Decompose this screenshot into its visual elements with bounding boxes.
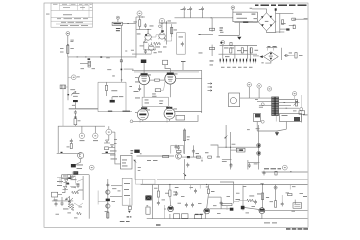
wire B3 right up [211,145,219,157]
label DS2 [93,139,98,142]
wire B3 down [184,159,186,171]
wire V3 top [143,63,145,73]
wire V5 heater stub [139,120,141,123]
specks right of R31 [173,191,176,194]
labels C4 c [303,195,307,198]
resistor strip r2 [241,48,243,53]
tap arrow 1 [208,83,213,85]
label top module [112,75,115,78]
labels under P1 [72,104,75,107]
relay box K1 [121,156,133,170]
speck bus9 [217,212,221,215]
resistor R36 [275,171,277,175]
labels caps B1 [181,8,202,11]
labels strip b [237,49,248,52]
switch box S4 [176,115,185,120]
wire F1 col [74,113,76,119]
rectifier bridge CR2 [264,52,279,62]
tick TB1 right [127,22,129,25]
triode V1A [144,31,152,40]
wire choke left [80,63,88,65]
wire V4 grid link [161,81,166,91]
wire B1 web5 [149,44,151,46]
wire v221 [220,197,222,209]
connector P3 [145,195,151,200]
speck bus7 [198,202,202,205]
arrow v135 top [134,160,136,163]
specks A4 box left [118,190,121,193]
wire R14 [106,82,108,85]
text in bias module 2 [237,17,248,20]
tick stub202 [201,160,203,163]
marks CR2 right [289,52,292,55]
wire module drop [238,22,240,35]
labels A2 [70,88,75,91]
capacitor C28 [192,149,195,154]
wire tangle13 [55,199,57,202]
wire heater feed [124,69,133,70]
wire C3 v230 [230,132,232,170]
resistor R6a [209,47,214,49]
resistor R31 [169,190,171,196]
wire A3 bottom [57,152,80,154]
wire B4 d3 [164,205,166,219]
specks C3 d [222,160,227,163]
resistor R26b [71,204,74,211]
speck B3 r1 [196,152,200,155]
labels under q7 [195,213,203,216]
speck B1 c [137,33,141,36]
wire cap stem a [183,11,185,18]
wire V2 plate [161,23,163,30]
wire B3 top bus [133,115,199,121]
wire c40 top [281,195,283,202]
wire stub290 [289,185,291,190]
wire B1 h3 [144,49,156,51]
wire r37 left [234,201,247,202]
wire C3 v247 [247,160,249,170]
wire S1 to vert [112,131,115,133]
title block outline [51,3,93,27]
title block rows [51,10,93,24]
wire R7 drop [211,18,213,32]
speck tube V4 [174,73,178,76]
resistor R16 [295,100,297,107]
neon arrow 2 [69,198,74,202]
wire C4 v295 [294,200,296,204]
speck choke a [81,67,85,70]
terminal E2 [231,6,235,10]
wire C3 h150 [231,149,241,151]
speck bus1 [154,187,158,190]
wire hv h4 [280,28,290,30]
wire A4 main [88,175,90,219]
label near R6a [199,52,203,55]
jack box J4 [128,206,131,209]
wire A4 h185 [111,185,122,187]
jack J2 [71,75,76,80]
wire Q1 up [80,151,82,154]
wire DS2 up [94,126,96,133]
text in bias module [236,14,255,15]
specks C3 c [256,127,260,130]
speck B1 e [174,29,178,32]
wire cap stem b [190,11,192,18]
text bottom C3 [264,168,281,169]
tube pin circle [159,25,162,28]
speck tube V6 [174,108,178,111]
labels A4 b [71,178,77,181]
output jack box J5 [293,203,302,208]
speck bus6 [190,186,194,189]
terminal E7 [282,165,287,170]
labels A4 f [120,220,130,223]
rev mark left of title [46,13,50,16]
speck heater feed [107,68,111,71]
diode block D7 [230,208,234,211]
tick sec4 [286,107,288,110]
bottom model label [156,224,161,225]
labels module3 [119,95,123,98]
wire C4 d [261,214,263,219]
speck c4bus3 [246,212,250,215]
marks left B2c [134,90,139,93]
wire C4 top [262,171,308,173]
resistor R21 [197,156,201,158]
wire CR2 bottom [265,61,271,63]
arrow on v226 [225,136,228,139]
specks A4 t1 [74,172,78,175]
capacitor C6 [201,7,204,12]
labels in regbox [124,182,130,185]
wire B4 d2 [204,211,206,219]
fuse contact blob [75,116,77,118]
specks C3 e [254,163,258,166]
wire dashed right [300,95,302,108]
marks left B2 [135,81,139,84]
tick sec2 [284,101,286,104]
wire CR1 bottom [267,31,277,33]
specks q col [112,187,116,190]
wire C3 v258 [258,125,260,170]
electrolytic C39 [241,206,245,210]
title block text row3 [57,17,88,20]
transistor Q8 [204,208,210,214]
wire hv h3 [289,25,295,27]
wire C3 v226 [225,125,227,147]
potentiometer R13 [71,92,76,96]
specks q col c [112,200,116,203]
speck B1 d [158,51,162,54]
wire B1 web4 [166,37,171,41]
resistor R11 [292,18,296,20]
wire gnd bus C4 [220,218,263,220]
wire input bus [68,56,136,58]
wire hv h2 [293,18,307,20]
label R1 [70,39,73,42]
socket box V4 [163,60,168,64]
labels C4 bottom [264,222,277,225]
resistor CR2 right [295,53,297,59]
wire tangle9 [75,178,77,184]
dash on bus [106,57,110,60]
wire B4 d1 [169,214,171,219]
labels A3 g [77,167,83,170]
wire xfmr sec1 [279,99,295,101]
resistor R19 [177,150,182,152]
input jack J1 [66,32,70,36]
connector P2 [71,164,76,167]
specks A4 bot3 [74,217,78,220]
diode D4 [64,180,69,183]
wire A4 y200 [52,200,73,202]
speck c4bus2 [236,192,240,195]
wire V5 top [142,106,144,108]
wire V2 col [165,21,167,45]
wire strip v4 [250,48,252,59]
resistor R12 [230,43,232,46]
marks left B2b [135,97,140,100]
speck J2 [77,76,80,79]
filter capacitor bank C11-C16 [220,59,257,62]
wire C4 corner [220,182,234,196]
wire A4 vert [82,176,84,200]
wire R31 q7 [169,196,172,206]
wire CR1 left [253,21,258,23]
labels B4 c [211,190,215,193]
grommet B3 left [130,120,133,123]
wire V3 cathode [143,85,145,98]
resistor R25 [72,191,79,194]
transistor Q7 [168,206,174,212]
marks CR2 top [267,45,276,48]
resistor R32 [207,189,209,194]
wire F1 down [74,125,76,127]
specks v135 b [138,169,141,172]
label R1 row2 [70,40,73,43]
wire mid bus C1 [219,35,240,37]
marks in bias box [159,100,163,103]
wire hv h1 [276,12,294,14]
small box above bus [136,179,156,184]
switch S1 [106,129,112,135]
wire dashed right b [300,111,302,123]
wire S1 up [108,126,110,129]
transistor Q9 [259,208,265,214]
marks xfmr left b [255,98,258,101]
junction C3 c [258,147,259,148]
grid stopper V1B [161,30,164,32]
wire C2d stem [294,96,296,100]
specks C4 top [243,185,246,188]
wire A3 vert [114,132,116,155]
label M2 [282,114,288,117]
choke L1 [88,61,91,67]
pot box R34 [182,214,189,219]
wire V6 top [169,106,171,107]
labels module [111,89,117,92]
labels A3 e [111,158,118,161]
marks hv right [304,17,308,20]
specks q col b [105,210,109,213]
transistor Q2 [176,153,182,159]
grommet xfmr left [261,103,264,106]
capacitor C34 [106,183,109,188]
marks CR2 left [255,49,259,52]
speck A4 b [54,199,58,202]
resistor R2 [139,20,141,26]
wire J4 col [129,198,131,206]
resistor R37 [247,199,254,202]
capacitor C5 [189,7,192,12]
labels B3 a [147,159,158,162]
wire CR2 stem2 [273,48,275,51]
junction C3 a [226,147,227,148]
speck c4bus1 [227,195,231,198]
junction bias [199,33,201,36]
wire V3 grid in [135,77,139,79]
speck B3 r2 [205,151,209,154]
wire hv h5 [276,31,285,33]
wire K2 down [256,122,258,132]
wire xfmr sec4 [279,107,300,109]
wire xfmr bottom feed [275,115,277,121]
wire C4 r39 vert [233,196,235,203]
transistor Q3 ring [257,143,261,147]
bias resistor block [110,100,115,103]
wire V1 bubble down [139,16,141,20]
wire A3 L [63,125,105,127]
wire B1 h2 [136,29,151,31]
capacitor above F1 [74,110,77,115]
wire CR2 top bus [266,47,277,49]
feedback loop wires [171,145,184,153]
terminal row module [243,21,248,23]
wire heater bus [132,69,202,71]
capacitor C7 [181,42,184,47]
speck c4bus8 [300,192,304,195]
wire OT primary [201,70,203,113]
marks top right B2 [210,60,214,63]
marks CR2 right b [299,54,303,57]
marks left C1 [220,27,224,30]
specks A4 bot4 [79,206,83,209]
wire to ground [257,129,286,131]
fuse F1 [74,119,77,125]
marks left C1c [220,31,224,34]
capacitor C29 [186,163,189,168]
capacitor C18 [138,87,141,92]
thermal switch box [105,147,109,150]
arrow B4 [183,173,186,176]
border frame [44,3,308,227]
resistor R26 [68,201,71,208]
label under V1 [143,41,148,44]
power switch box S5 [52,192,58,197]
wire CR2 left [253,55,259,57]
speck B1 f [140,45,144,48]
wire C3 h147 [219,146,260,148]
bubble C4 [274,186,277,189]
wire plate bus [159,22,177,24]
power tube V4 [165,73,176,85]
capacitor C9 [284,54,289,57]
capacitor C36 [185,203,188,208]
wire A4 top [67,174,89,176]
wire R32 top [208,185,210,190]
wire C4 out [258,209,307,211]
wire P1 down [74,102,76,109]
tick top link [142,16,144,19]
speck c4bus6 [286,192,290,195]
wire stub190 [190,185,192,190]
wire C4 r39 down [226,206,228,210]
label left b [60,51,64,54]
label DS1 [80,139,85,142]
wire A3 h153 [102,153,115,155]
labels in regbox2 [124,188,129,191]
label cluster B1b [156,46,167,49]
shield box preamp [177,33,186,55]
junction B1 c [166,22,167,23]
resistor R22 [208,156,212,158]
meter box M2 [280,114,302,122]
wire CR2 stem1 [266,48,268,51]
grommet xfmr bottom [261,120,264,123]
capacitor C30 [230,163,233,168]
neon arrow 1 [66,196,71,200]
connector J3 [134,150,139,153]
marks in bias box2 [159,102,162,105]
speck bus2 [162,199,166,202]
wire lower bus C1 [220,45,257,47]
wire module top edge [157,179,308,181]
wire A4 v2 [107,179,109,219]
capacitor C2 [144,49,147,54]
marks left C1b [220,29,223,32]
wire q9 in [245,208,259,210]
speck A4 a [76,183,80,186]
wire heater bus 2 [134,71,199,73]
wire R4 col [171,24,173,37]
marks CR1 left [254,17,258,20]
wire S1 down [108,135,110,140]
triode V2A [148,42,155,50]
resistor R10 [282,20,284,25]
bubble C2d [292,92,296,96]
wire c18 [139,85,141,87]
speck c4bus5 [270,200,274,203]
wire screen bus [175,17,233,19]
wire xfmr left 2 [257,101,272,103]
capacitor C35 [175,191,178,196]
specks right of S1 col [114,138,117,141]
dark diode mark A4 b [66,183,69,185]
electrolytic C27 [187,156,190,158]
marks below box [108,111,130,112]
wire V6 plate to OT [175,111,202,113]
label under TB1 b [116,30,120,31]
speck A4 c [71,186,76,189]
blob near E5 [220,42,222,44]
wire B1 h4 [132,53,151,55]
wire V6 stem [169,119,171,121]
wire main vert A2 [67,57,69,100]
wire top feed CR1 [252,9,266,13]
wire tangle10 [77,179,83,182]
specks C3 a [232,143,236,146]
wire below module [235,21,257,24]
